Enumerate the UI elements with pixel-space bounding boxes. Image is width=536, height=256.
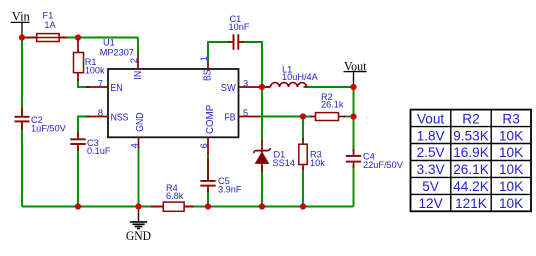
svg-text:NSS: NSS: [111, 113, 129, 124]
wire L1 to Vout node: [304, 86, 354, 88]
op-amp U1 MP2307 IC body: [100, 37, 239, 137]
svg-text:10nF: 10nF: [229, 22, 250, 32]
wire C5 to ground: [207, 189, 209, 207]
svg-text:U1: U1: [103, 37, 115, 47]
resistor R2: [310, 92, 345, 121]
svg-text:4: 4: [129, 143, 139, 148]
wire Vout node down to C4: [353, 87, 355, 152]
pin 4 GND: [129, 113, 146, 149]
resistor R3: [299, 138, 325, 170]
wire R2 to Vout node: [344, 116, 354, 118]
svg-text:12V: 12V: [419, 196, 443, 211]
svg-text:3: 3: [243, 79, 248, 89]
pin 5 FB: [225, 108, 260, 123]
pin 3 SW: [221, 79, 259, 95]
capacitor C3: [70, 132, 111, 156]
wire NSS branch: [78, 117, 90, 137]
svg-text:6: 6: [199, 143, 209, 148]
svg-text:5V: 5V: [422, 179, 439, 194]
svg-text:BS: BS: [202, 69, 213, 81]
ground symbol GND: [126, 208, 151, 243]
svg-text:10uH/4A: 10uH/4A: [282, 72, 319, 82]
wire SW to L1: [258, 86, 268, 88]
junction node FB/R3: [300, 113, 306, 119]
svg-text:Vin: Vin: [12, 9, 30, 24]
wire C4 to ground: [353, 165, 355, 207]
svg-text:22uF/50V: 22uF/50V: [363, 160, 404, 170]
pin 6 COMP: [199, 104, 216, 155]
junction node R2/Vout line: [350, 113, 356, 119]
svg-text:Vout: Vout: [417, 111, 444, 126]
wire R3 to ground: [302, 167, 304, 207]
svg-text:0.1uF: 0.1uF: [87, 146, 111, 156]
svg-text:MP2307: MP2307: [100, 47, 134, 57]
svg-text:1uF/50V: 1uF/50V: [31, 123, 67, 133]
wire left rail: [21, 38, 23, 207]
resistor R1: [74, 39, 106, 81]
svg-text:26.1k: 26.1k: [321, 99, 344, 109]
svg-text:R2: R2: [462, 111, 479, 126]
svg-text:GND: GND: [135, 113, 146, 132]
inductor L1: [262, 65, 319, 88]
junction node Vin rail: [19, 34, 25, 40]
svg-text:5: 5: [243, 108, 248, 118]
svg-text:SS14: SS14: [273, 158, 295, 168]
svg-text:121K: 121K: [455, 196, 487, 211]
wire EN branch: [78, 79, 90, 87]
svg-text:10K: 10K: [499, 128, 523, 143]
svg-text:3.9nF: 3.9nF: [218, 184, 242, 194]
svg-text:1A: 1A: [44, 20, 56, 30]
svg-text:COMP: COMP: [205, 104, 216, 134]
pin 2 IN: [129, 54, 144, 80]
wire GND pin to ground rail: [138, 147, 140, 207]
svg-text:10K: 10K: [499, 162, 523, 177]
wire R3 top: [302, 117, 304, 141]
svg-text:26.1K: 26.1K: [453, 162, 489, 177]
svg-text:SW: SW: [221, 83, 236, 94]
table Vout/R2/R3 values: [411, 110, 532, 212]
svg-text:EN: EN: [110, 83, 122, 94]
junction node SW: [259, 84, 265, 90]
svg-text:44.2K: 44.2K: [453, 179, 489, 194]
capacitor C2: [15, 108, 67, 133]
wire COMP to C5: [207, 154, 209, 181]
svg-text:8: 8: [98, 108, 103, 118]
svg-text:9.53K: 9.53K: [453, 128, 489, 143]
svg-text:10K: 10K: [499, 179, 523, 194]
svg-text:10K: 10K: [499, 145, 523, 160]
capacitor C1: [228, 14, 250, 50]
svg-text:FB: FB: [225, 113, 236, 124]
wire FB to R2: [258, 116, 312, 118]
wire BS to C1: [208, 42, 230, 62]
wire D1 to ground: [261, 166, 263, 207]
capacitor C4: [346, 149, 404, 170]
junction node Vout: [350, 84, 356, 90]
wire SW node down to D1: [261, 87, 263, 142]
junction node D1 ground: [259, 203, 265, 209]
pin 1 BS: [199, 56, 213, 81]
pin 7 EN: [86, 78, 123, 94]
junction node R3 ground: [300, 203, 306, 209]
svg-text:3.3V: 3.3V: [417, 162, 445, 177]
svg-text:7: 7: [98, 78, 103, 88]
junction node R1 tap: [75, 34, 81, 40]
svg-text:2.5V: 2.5V: [417, 145, 445, 160]
port Vout: [344, 58, 367, 84]
svg-text:IN: IN: [133, 71, 144, 80]
svg-text:6.8k: 6.8k: [166, 191, 184, 201]
svg-text:1.8V: 1.8V: [417, 128, 445, 143]
svg-text:10k: 10k: [310, 158, 325, 168]
wire top rail Vin to IN: [22, 38, 138, 55]
junction node GND pin ground: [135, 203, 141, 209]
pin 8 NSS: [86, 108, 129, 124]
capacitor C5: [200, 158, 242, 194]
svg-text:100k: 100k: [85, 66, 105, 76]
svg-text:16.9K: 16.9K: [453, 145, 489, 160]
svg-text:10K: 10K: [499, 196, 523, 211]
svg-text:GND: GND: [126, 228, 151, 243]
diode D1: [254, 140, 295, 172]
wire bottom ground rail: [22, 206, 354, 208]
svg-text:1: 1: [199, 56, 209, 61]
svg-text:R3: R3: [502, 111, 519, 126]
port Vin: [11, 9, 30, 35]
fuse F1: [24, 11, 67, 42]
junction node C5 ground: [205, 203, 211, 209]
junction node C3 ground: [75, 203, 81, 209]
wire C1 to SW node: [242, 42, 262, 87]
resistor R4: [151, 183, 194, 212]
wire C3 to ground: [77, 147, 79, 207]
svg-text:2: 2: [129, 58, 139, 63]
